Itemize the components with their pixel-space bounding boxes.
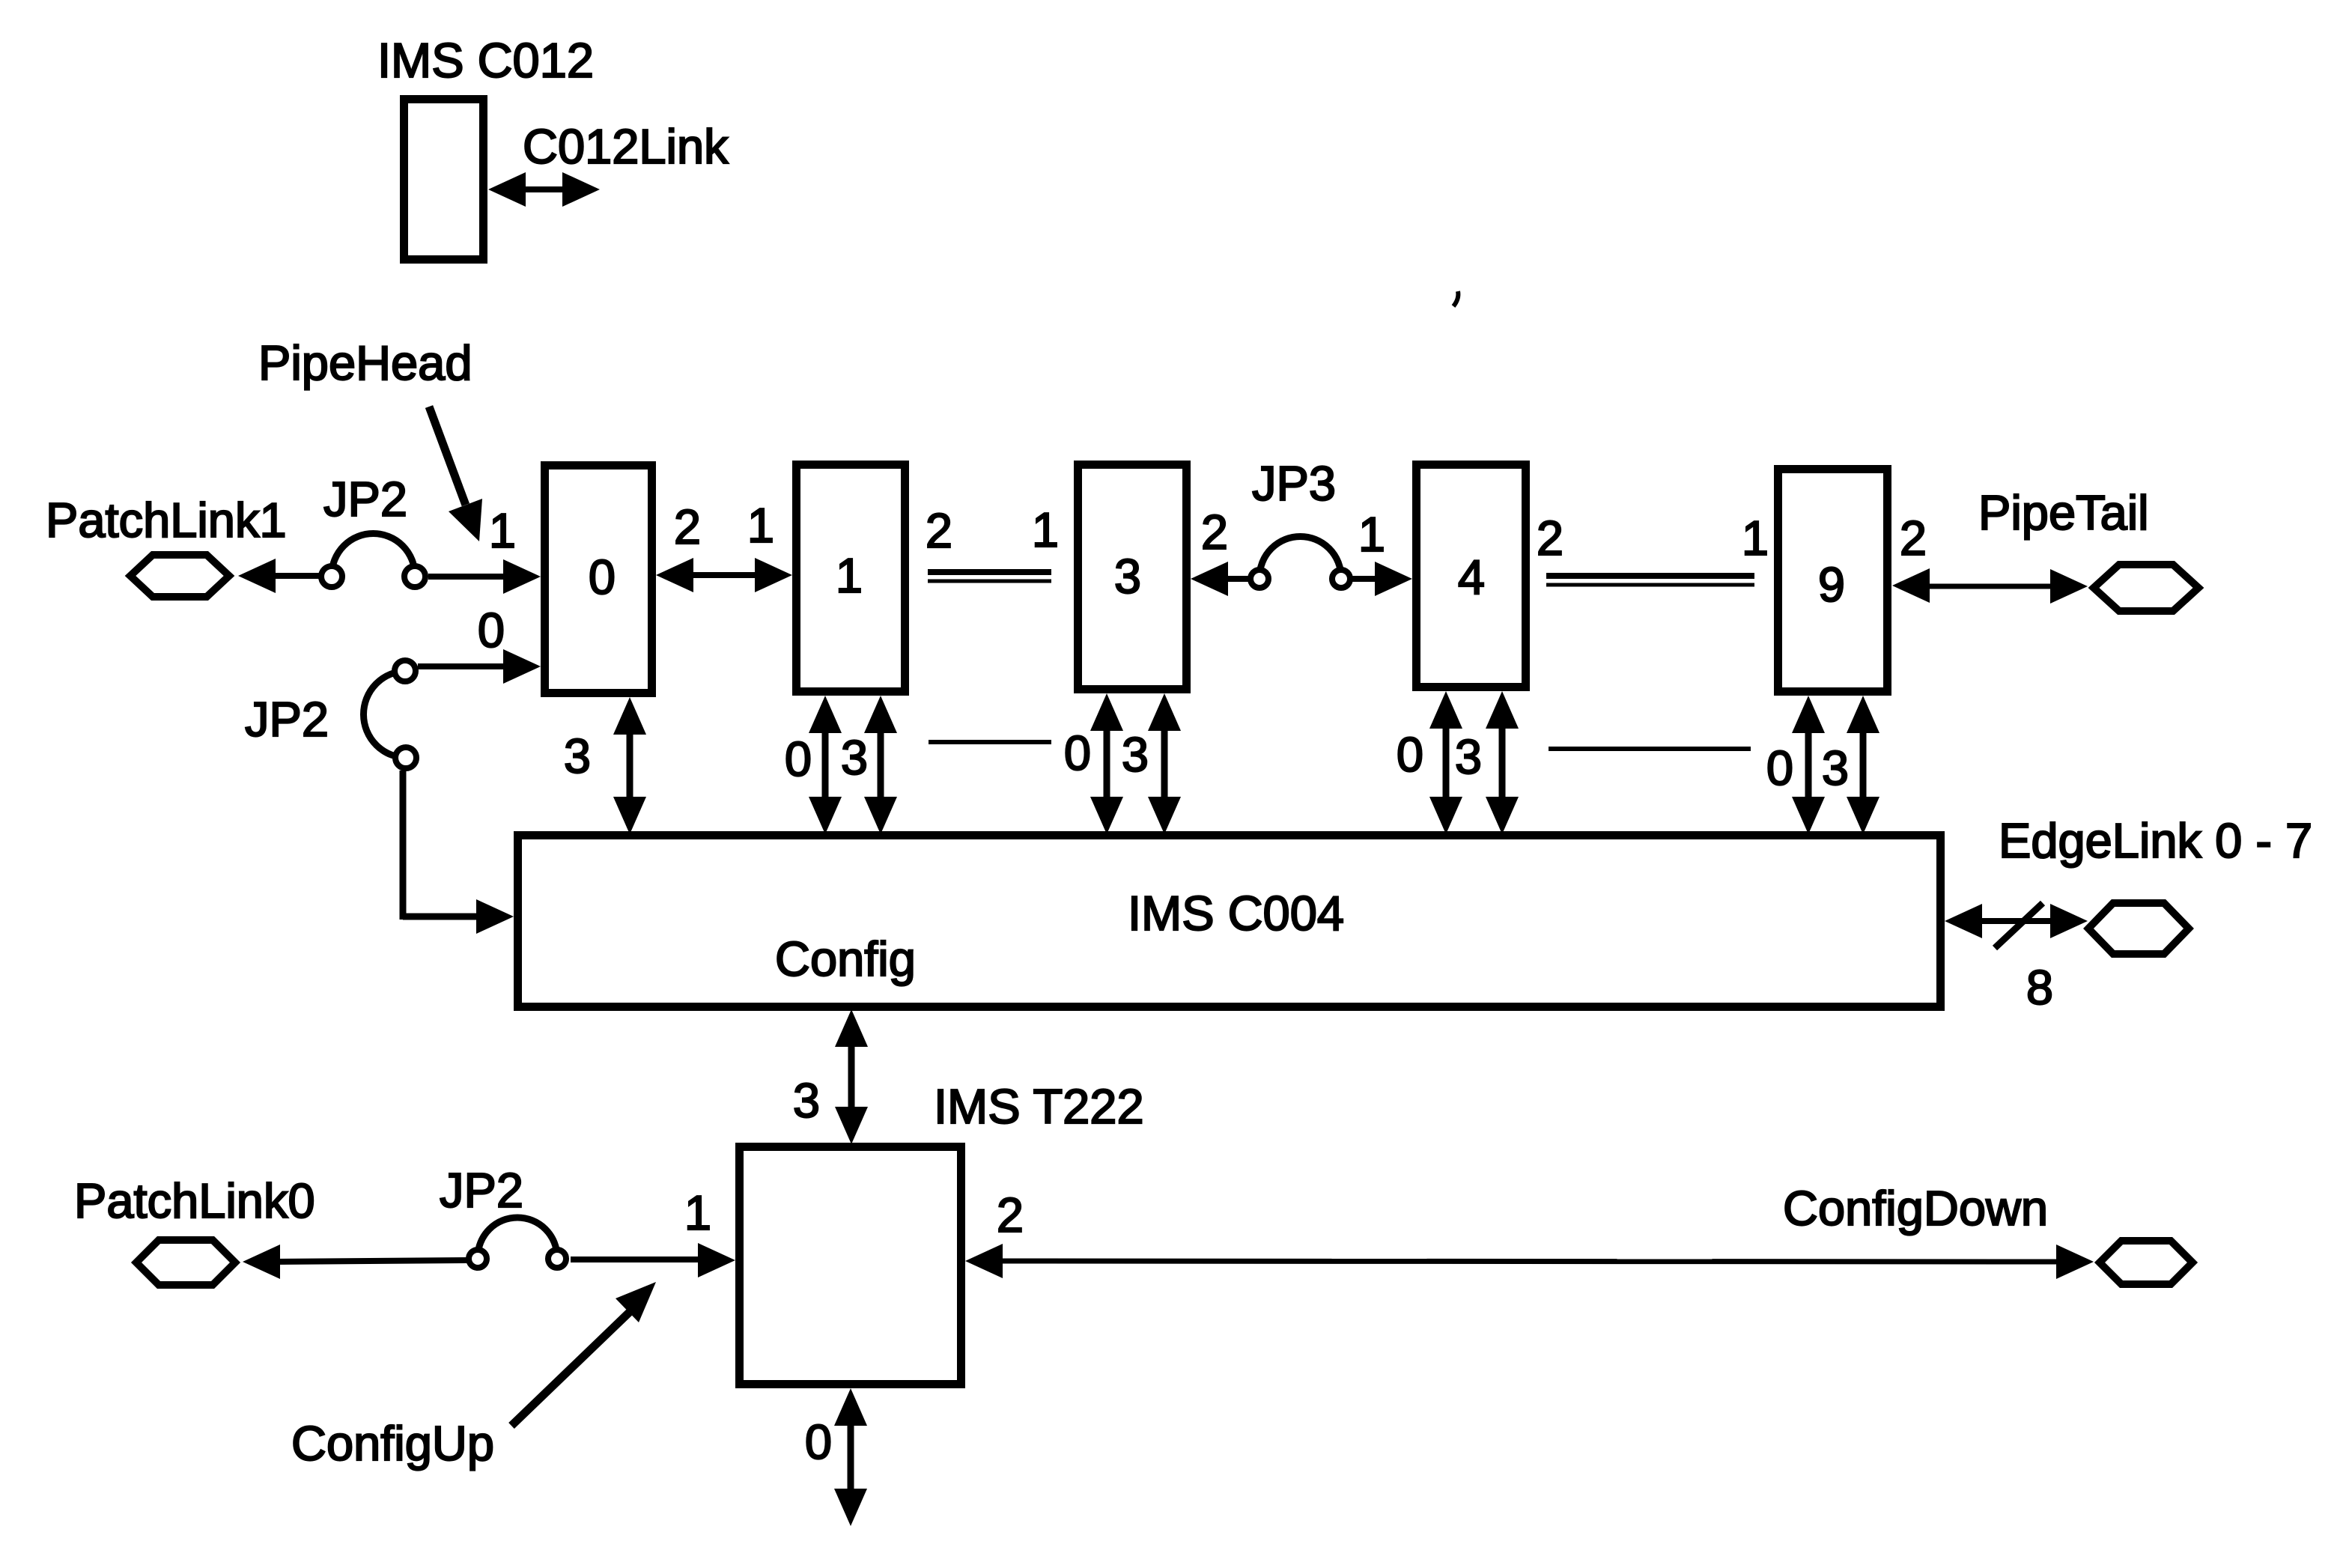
svg-text:1: 1 [747,498,774,553]
connector EdgeLink hexagon [2088,903,2189,954]
wire T222 pin 0 free link [834,1388,867,1526]
pin 1 of transputer 3 [1032,502,1059,557]
scan speck (apostrophe mark) [1453,291,1458,306]
svg-text:2: 2 [1537,511,1564,565]
label JP2 (pipe head jumper) [323,472,407,526]
wire link transputer 9 pin 3 to C004 [1847,696,1879,834]
svg-text:3: 3 [564,729,591,783]
wire jumper JP2 to transputer 0 pin 1 [428,559,541,594]
pin 3 of transputer 1 [841,730,868,785]
label PipeTail [1978,485,2149,540]
label EdgeLink 0 - 7 [1999,813,2312,868]
label Config (C004 configuration link) [775,932,916,986]
pin 0 of transputer 9 [1766,741,1793,795]
link adaptor U1 IMS C012 [404,100,484,260]
pin 1 of transputer 0 [489,503,516,558]
label JP2 (link 0 jumper) [245,692,329,747]
transputer node 3 [1078,465,1187,690]
svg-text:9: 9 [1818,557,1845,612]
wire transputer 9 pin 2 to PipeTail connector [1892,568,2088,604]
svg-text:3: 3 [1122,727,1149,782]
wire PipeHead pointer arrow [429,407,482,541]
label C012Link [523,119,729,174]
jumper JP2 (PatchLink1 - Link1) [321,534,425,588]
transputer node 4 [1417,465,1526,687]
wire ConfigUp pointer arrow [511,1282,656,1426]
connector PatchLink0 hexagon [136,1240,235,1285]
label JP3 [1252,456,1336,511]
pin 0 of transputer 1 [785,732,812,786]
wire link transputer 3 pin 0 to C004 [1090,693,1123,834]
svg-text:JP2: JP2 [440,1163,523,1218]
configuration processor U3 IMS T222 [740,1147,961,1385]
svg-text:JP2: JP2 [245,692,329,747]
svg-text:3: 3 [1455,729,1482,784]
svg-text:ConfigDown: ConfigDown [1783,1181,2048,1236]
bus width slash (8 links) [1995,903,2043,948]
svg-text:0: 0 [478,603,505,657]
wire ConfigDown from T222 pin 2 to edge connector [965,1244,2094,1279]
wire transputer 3 pin 2 to jumper JP3 [1191,562,1249,596]
wire link transputer 3 pin 3 to C004 [1148,693,1181,834]
svg-text:1: 1 [1358,507,1385,562]
wire lower jumper JP2 to transputer 0 pin 0 [418,649,541,684]
pin 2 of transputer 0 [674,499,701,554]
label IMS C012 [377,33,594,88]
pin 3 of transputer 4 [1455,729,1482,784]
label ConfigUp [291,1416,494,1471]
svg-text:0: 0 [589,550,616,604]
pin 3 of transputer 0 [564,729,591,783]
label PatchLink1 [46,493,287,547]
svg-text:3: 3 [793,1073,820,1128]
pin 3 of T222 [793,1073,820,1128]
svg-text:0: 0 [1064,726,1091,780]
pin 0 of T222 [805,1414,832,1469]
wire omitted links dash between nodes 4 and 9 [1549,747,1751,751]
pin 0 of transputer 0 [478,603,505,657]
connector ConfigDown hexagon [2100,1241,2192,1284]
svg-text:0: 0 [805,1414,832,1469]
label bus width 8 [2026,960,2053,1015]
svg-text:IMS C012: IMS C012 [377,33,594,88]
wire jumper JP2 down to IMS C004 left edge [403,771,514,934]
wire EdgeLink bus from C004 to edge connector [1945,904,2088,938]
pin 0 of transputer 4 [1397,727,1423,782]
pin 1 of transputer 1 [747,498,774,553]
wire C004 Config link to T222 pin 3 [835,1009,868,1144]
pin 2 of transputer 9 [1900,511,1927,565]
svg-text:2: 2 [1900,511,1927,565]
connector PipeTail hexagon [2094,565,2198,611]
transputer node 9 [1778,470,1888,692]
wire omitted pipeline link (double line) between nodes 4 and 9 [1546,576,1754,585]
svg-text:PipeTail: PipeTail [1978,485,2149,540]
transputer node 1 [797,465,905,692]
wire link transputer 0 pin 3 to C004 [613,697,646,834]
svg-text:IMS T222: IMS T222 [934,1079,1144,1134]
svg-text:3: 3 [1822,741,1849,795]
wire link transputer 4 pin 3 to C004 [1486,691,1519,834]
svg-text:EdgeLink 0 - 7: EdgeLink 0 - 7 [1999,813,2312,868]
svg-text:JP2: JP2 [323,472,407,526]
svg-text:C012Link: C012Link [523,119,729,174]
svg-text:PatchLink1: PatchLink1 [46,493,287,547]
pin 3 of transputer 3 [1122,727,1149,782]
pin 1 of T222 [684,1185,711,1240]
pin 2 of T222 [997,1188,1024,1242]
svg-text:8: 8 [2026,960,2053,1015]
label ConfigDown [1783,1181,2048,1236]
svg-text:1: 1 [1032,502,1059,557]
svg-text:0: 0 [785,732,812,786]
svg-text:2: 2 [1201,505,1228,559]
wire link transputer 1 pin 3 to C004 [864,696,897,834]
svg-text:2: 2 [926,503,952,558]
pin 2 of transputer 1 [926,503,952,558]
svg-text:1: 1 [489,503,516,558]
label IMS T222 [934,1079,1144,1134]
svg-text:2: 2 [997,1188,1024,1242]
wire PatchLink0 to jumper JP2, arrow into hexagon [243,1245,467,1279]
wire omitted pipeline link (double line) between nodes 1 and 3 [928,572,1051,581]
connector PatchLink1 hexagon [130,555,229,597]
svg-text:PipeHead: PipeHead [258,335,472,390]
svg-text:1: 1 [1742,511,1769,565]
wire C012Link bidirectional arrow [488,172,600,207]
pin 3 of transputer 9 [1822,741,1849,795]
pin 1 of transputer 9 [1742,511,1769,565]
label JP2 (config up jumper) [440,1163,523,1218]
wire link transputer 0 pin 2 to transputer 1 pin 1 [656,558,792,592]
svg-text:Config: Config [775,932,916,986]
wire omitted links dash between nodes 1 and 3 [929,740,1051,744]
svg-text:JP3: JP3 [1252,456,1336,511]
wire jumper JP2 to T222 pin 1 (ConfigUp) [571,1243,735,1277]
pin 0 of transputer 3 [1064,726,1091,780]
svg-text:ConfigUp: ConfigUp [291,1416,494,1471]
link switch U2 IMS C004 [518,836,1941,1007]
wire link transputer 4 pin 0 to C004 [1429,691,1462,834]
label PipeHead [258,335,472,390]
transputer node 0 [545,466,652,693]
svg-text:PatchLink0: PatchLink0 [74,1173,315,1228]
svg-text:1: 1 [836,548,863,603]
wire jumper JP3 to transputer 4 pin 1 [1352,562,1412,596]
jumper JP2 (Link0 - C004) [363,660,416,768]
pin 2 of transputer 4 [1537,511,1564,565]
jumper JP2 (PatchLink0 - ConfigUp) [469,1218,566,1268]
svg-text:4: 4 [1458,550,1485,604]
jumper JP3 (node 3 - node 4) [1251,537,1350,589]
label PatchLink0 [74,1173,315,1228]
svg-text:0: 0 [1766,741,1793,795]
svg-text:0: 0 [1397,727,1423,782]
svg-text:IMS C004: IMS C004 [1128,886,1344,941]
wire link transputer 9 pin 0 to C004 [1792,696,1825,834]
wire link transputer 1 pin 0 to C004 [809,696,842,834]
svg-text:2: 2 [674,499,701,554]
svg-text:3: 3 [1114,549,1141,604]
pin 2 of transputer 3 [1201,505,1228,559]
svg-text:3: 3 [841,730,868,785]
svg-text:1: 1 [684,1185,711,1240]
pin 1 of transputer 4 [1358,507,1385,562]
wire PatchLink1 to jumper JP2, arrow into hexagon [238,559,322,593]
